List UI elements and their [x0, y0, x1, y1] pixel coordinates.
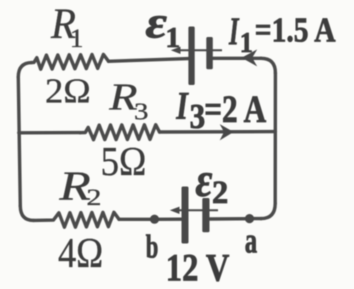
resistor R3 (5 ohm) zigzag [80, 125, 160, 140]
wire node b to R2 [119, 218, 155, 221]
svg-text:b: b [146, 230, 159, 266]
battery e1 long plate (positive terminal) [188, 27, 194, 86]
svg-text:2Ω: 2Ω [45, 72, 91, 111]
wire battery e2 to node b [155, 217, 182, 221]
emf e2 direction arrow (head) [170, 207, 180, 214]
wire left vertical (node junction with middle branch) [18, 77, 20, 206]
svg-text:1: 1 [70, 24, 84, 53]
svg-text:=2 A: =2 A [204, 88, 267, 131]
emf e1 direction arrow (shaft) [178, 49, 222, 51]
wire bottom-left corner [20, 206, 33, 220]
current I3 direction arrowhead (pointing right) [220, 124, 234, 140]
svg-text:ε: ε [195, 153, 212, 207]
wire right vertical (node junction with middle branch) [274, 73, 278, 204]
wire bottom-right corner [261, 204, 275, 219]
emf e2 direction arrow (shaft) [177, 209, 218, 211]
resistor R1 (2 ohm) zigzag [32, 54, 109, 69]
current I1 direction arrowhead (pointing left) [242, 49, 258, 66]
svg-text:3: 3 [134, 98, 148, 125]
wire corner to node a [250, 217, 262, 220]
svg-text:5Ω: 5Ω [101, 139, 147, 184]
node b junction dot [150, 215, 159, 224]
emf e1 direction arrow (head) [171, 47, 181, 54]
wire middle branch right segment [160, 130, 276, 134]
battery e2 long plate (positive terminal) [182, 187, 189, 244]
wire middle branch left segment [19, 131, 80, 135]
battery e1 short plate (negative terminal) [206, 37, 213, 69]
wire node a to battery e2 [210, 217, 250, 221]
svg-text:ε: ε [145, 0, 167, 48]
wire top-right corner [261, 58, 275, 73]
svg-text:4Ω: 4Ω [58, 229, 103, 276]
svg-text:a: a [245, 221, 257, 261]
svg-text:12 V: 12 V [166, 246, 230, 289]
battery e2 short plate (negative terminal) [202, 198, 209, 232]
svg-text:3: 3 [190, 99, 206, 137]
svg-text:2: 2 [86, 184, 101, 210]
svg-text:1: 1 [240, 27, 253, 58]
wire battery e1 to top-right corner [213, 57, 261, 60]
node a junction dot [245, 214, 254, 223]
svg-text:I: I [175, 85, 189, 127]
wire R1 to battery e1 [109, 59, 189, 62]
wire top-left corner [18, 63, 31, 77]
svg-text:2: 2 [212, 175, 228, 211]
svg-text:=1.5 A: =1.5 A [255, 10, 336, 49]
svg-text:1: 1 [165, 22, 180, 53]
svg-text:I: I [228, 11, 239, 54]
resistor R2 (4 ohm) zigzag [34, 212, 120, 227]
